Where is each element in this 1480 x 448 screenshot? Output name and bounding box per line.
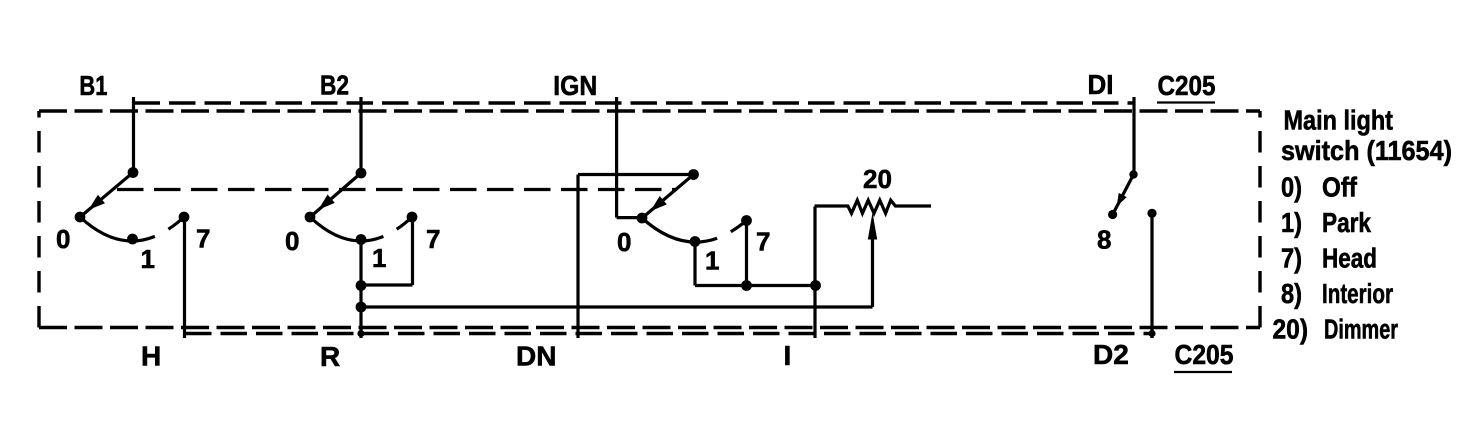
svg-text:8: 8: [1097, 225, 1111, 255]
svg-text:0: 0: [56, 224, 70, 254]
wire H from S1 terminal 7: [183, 217, 186, 338]
node S1 terminal 0: [75, 212, 86, 223]
switch S3 contact arc segment near 7: [731, 221, 747, 232]
switch S4 blade: [1114, 175, 1133, 212]
component box dashed border top: [39, 109, 1260, 112]
node junction line-I: [810, 280, 821, 291]
node S4 terminal 8: [1108, 210, 1117, 219]
wire S2 terminal 7 to junction: [361, 283, 413, 286]
wire DN vertical: [576, 175, 579, 339]
wire S3 terminal 1 drop: [693, 242, 696, 286]
svg-text:1): 1): [1281, 207, 1302, 238]
node switch1 pivot: [128, 167, 139, 178]
node S3 terminal 0: [637, 213, 648, 224]
switch S1 contact arc segment near 7: [168, 217, 184, 229]
svg-text:Main light: Main light: [1284, 105, 1394, 136]
node junction S2 drop / 7 loop: [356, 280, 367, 291]
switch S3 wiper arrowhead: [650, 196, 667, 211]
node switch2 pivot: [356, 168, 367, 179]
svg-text:1: 1: [705, 246, 719, 276]
svg-text:Park: Park: [1322, 207, 1371, 238]
svg-text:B2: B2: [320, 70, 349, 101]
switch S1 wiper blade: [83, 173, 134, 216]
svg-text:Head: Head: [1322, 243, 1377, 274]
svg-text:1: 1: [141, 244, 155, 274]
rheostat wiper arrowhead: [868, 213, 877, 240]
svg-text:8): 8): [1281, 278, 1302, 309]
svg-text:0: 0: [285, 226, 299, 256]
node S2 terminal 0: [305, 212, 316, 223]
wire rheostat wiper riser: [871, 237, 874, 307]
svg-text:Dimmer: Dimmer: [1324, 314, 1398, 345]
connector C205 top underline: [1157, 101, 1215, 103]
node junction S3 7-drop: [741, 280, 752, 291]
switch S2 contact arc segment 0-1: [310, 217, 383, 241]
node junction S2 drop / dimmer feed: [356, 302, 367, 313]
node DI pivot: [1129, 170, 1137, 178]
component box dashed border right: [1258, 111, 1261, 328]
wire S3 junction line to I: [695, 284, 816, 287]
node R wire at connector: [357, 330, 364, 337]
svg-text:20: 20: [863, 164, 892, 194]
wire R from S2 terminal 1: [359, 240, 362, 339]
wire IGN to S3 terminal 0: [617, 216, 642, 219]
svg-text:R: R: [320, 341, 340, 372]
mechanical coupling dashed line between switch wipers: [117, 188, 677, 191]
wire dimmer feed horizontal: [361, 305, 873, 308]
svg-text:7: 7: [196, 224, 210, 254]
switch S2 wiper arrowhead: [318, 195, 335, 210]
switch S3 wiper blade: [645, 175, 694, 217]
node S1 terminal 7: [179, 212, 190, 223]
connector C205 top dashed line: [134, 101, 1135, 104]
node S3 terminal 1: [690, 236, 701, 247]
switch S1 wiper arrowhead: [88, 195, 105, 210]
switch S4 blade arrowhead: [1117, 193, 1127, 207]
switch S1 contact arc segment 0-1: [80, 217, 155, 241]
svg-text:H: H: [141, 341, 161, 372]
node S2 terminal 7: [407, 212, 418, 223]
wire B1 stub: [132, 97, 135, 174]
resistor rheostat 20 (dimmer): [815, 200, 932, 213]
svg-text:20): 20): [1273, 314, 1309, 345]
svg-text:IGN: IGN: [553, 70, 597, 101]
wire DI stub: [1132, 97, 1135, 174]
svg-text:D2: D2: [1093, 339, 1129, 370]
wire DN to S3 pivot: [578, 173, 694, 176]
svg-text:1: 1: [372, 243, 386, 273]
svg-text:7: 7: [756, 227, 770, 257]
node S1 terminal 1: [127, 234, 138, 245]
svg-text:C205: C205: [1158, 70, 1216, 101]
switch S2 wiper blade: [313, 173, 362, 215]
wire IGN stub: [615, 97, 618, 218]
component box dashed border bottom: [39, 326, 1260, 329]
svg-text:I: I: [784, 340, 792, 371]
svg-text:C205: C205: [1175, 339, 1234, 370]
node S3 terminal 7: [741, 215, 752, 226]
svg-text:7): 7): [1281, 243, 1302, 274]
svg-text:0: 0: [617, 227, 631, 257]
connector C205 bottom dashed line: [185, 332, 1152, 335]
wire S2 terminal 7 drop: [411, 217, 414, 285]
svg-text:0): 0): [1281, 172, 1302, 203]
node switch3 pivot: [688, 169, 699, 180]
svg-text:DN: DN: [516, 341, 556, 372]
switch S3 contact arc segment 0-1: [642, 218, 717, 242]
switch S2 contact arc segment near 7: [397, 217, 412, 229]
connector C205 bottom underline: [1174, 371, 1232, 373]
svg-text:switch (11654): switch (11654): [1281, 135, 1452, 166]
svg-text:Interior: Interior: [1322, 278, 1393, 309]
wire S3 terminal 7 drop: [745, 221, 748, 286]
node D2 wire at connector: [1148, 330, 1155, 337]
svg-text:DI: DI: [1088, 69, 1114, 100]
component box dashed border left: [37, 111, 40, 328]
wire D2 vertical: [1150, 213, 1153, 338]
wire I vertical: [813, 207, 816, 339]
svg-text:Off: Off: [1322, 172, 1358, 203]
svg-text:7: 7: [426, 224, 440, 254]
node S2 terminal 1: [356, 234, 367, 245]
wire B2 stub: [359, 97, 362, 174]
svg-text:B1: B1: [79, 70, 107, 101]
node D2 terminal: [1147, 209, 1156, 218]
